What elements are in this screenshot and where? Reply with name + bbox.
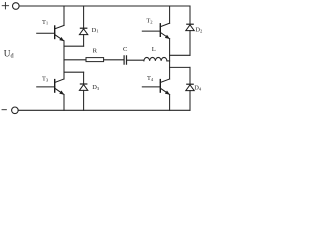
- svg-text:D1: D1: [92, 27, 100, 34]
- transistor T1: [37, 25, 65, 41]
- wire right leg bottom vertical: [169, 95, 171, 111]
- svg-text:T4: T4: [147, 75, 154, 82]
- svg-text:D2: D2: [195, 26, 203, 33]
- svg-text:R: R: [93, 47, 98, 54]
- wire T1 collector vertical: [63, 6, 65, 25]
- wire top rail: [19, 5, 190, 7]
- svg-text:T3: T3: [42, 76, 49, 83]
- transistor T3: [37, 79, 65, 95]
- transistor T4: [142, 79, 170, 95]
- wire D4 link horizontal: [170, 66, 190, 68]
- svg-text:T1: T1: [42, 19, 49, 26]
- wire D3 link horizontal: [64, 71, 84, 73]
- diode D1: [79, 28, 87, 34]
- wire left leg mid vertical: [63, 41, 65, 79]
- svg-text:C: C: [123, 46, 128, 53]
- wire D1 link horizontal: [64, 45, 84, 47]
- wire D1 bottom vertical: [83, 35, 85, 47]
- transistor T2: [142, 23, 170, 39]
- label - (negative terminal): [2, 109, 6, 111]
- label + (positive terminal): [2, 3, 8, 9]
- wire load left horizontal: [64, 59, 86, 61]
- terminal circle top: [13, 3, 20, 10]
- terminal circle bottom: [12, 107, 19, 114]
- svg-text:D3: D3: [92, 84, 100, 91]
- wire right leg mid vertical: [169, 39, 171, 79]
- svg-text:D4: D4: [194, 85, 202, 92]
- wire T2 collector vertical: [169, 6, 171, 23]
- wire D3 top vertical: [83, 72, 85, 84]
- diode D4: [186, 84, 194, 90]
- wire D3 bottom vertical: [83, 90, 85, 110]
- svg-text:L: L: [152, 46, 156, 53]
- wire D1 top vertical: [83, 6, 85, 28]
- wire D4 top vertical: [189, 67, 191, 84]
- diode D2: [186, 24, 194, 30]
- wire D2 top vertical: [189, 6, 191, 24]
- svg-text:T2: T2: [146, 17, 153, 24]
- resistor R: [86, 58, 104, 62]
- diode D3: [79, 84, 87, 90]
- capacitor C: [124, 56, 126, 64]
- wire L to right leg: [167, 60, 170, 62]
- inductor L: [144, 57, 167, 60]
- wire C to L: [127, 59, 144, 61]
- svg-text:Ud: Ud: [4, 48, 15, 59]
- wire left leg bottom vertical: [63, 95, 65, 111]
- wire D2 bottom vertical: [189, 31, 191, 56]
- wire D4 bottom vertical: [189, 91, 191, 111]
- wire D2 link horizontal: [170, 54, 190, 56]
- wire R to C: [104, 59, 124, 61]
- wire bottom rail: [18, 109, 190, 111]
